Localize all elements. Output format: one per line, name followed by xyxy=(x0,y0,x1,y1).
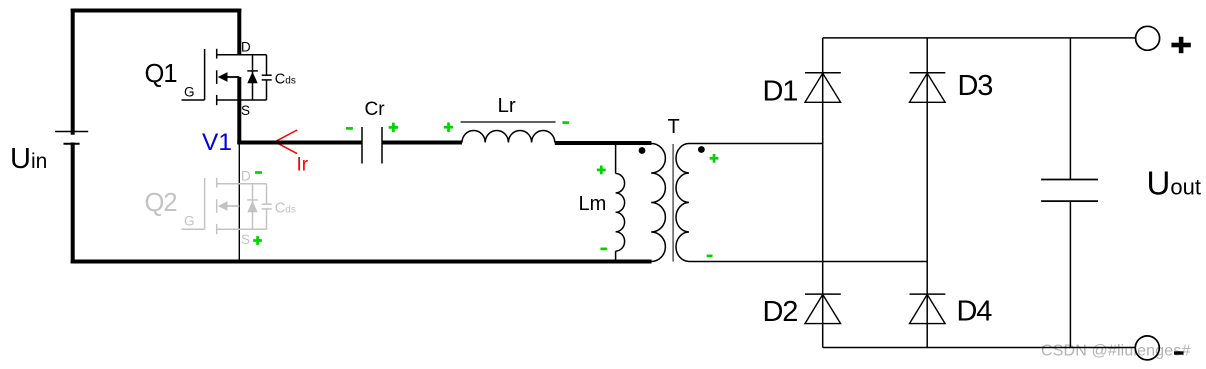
pin label D (Q2) xyxy=(241,169,251,184)
svg-text:D2: D2 xyxy=(763,296,798,328)
label + output xyxy=(1171,37,1190,53)
diode D2 xyxy=(805,294,841,324)
wire: secondary top to bridge left leg xyxy=(689,143,823,145)
Q2 body diode (gray) xyxy=(247,184,258,230)
label Uout xyxy=(1147,165,1201,202)
polarity - at secondary bottom xyxy=(707,255,713,258)
wire: bridge left leg xyxy=(822,38,824,348)
pin label G (Q2) xyxy=(184,214,195,229)
label Cds (Q1) xyxy=(275,72,296,88)
polarity - at Q2 drain xyxy=(255,171,262,174)
label D2 xyxy=(763,296,798,328)
svg-text:G: G xyxy=(184,214,195,229)
diode D1 xyxy=(805,73,841,103)
wire: Q1 source to node V1 (thick) xyxy=(237,77,241,144)
svg-text:D: D xyxy=(241,40,251,55)
wire: bottom rail xyxy=(71,260,652,264)
polarity + at Cr right xyxy=(389,123,399,133)
wire: bridge top rail to + terminal xyxy=(823,37,1136,39)
output terminal - (bottom right) xyxy=(1135,336,1159,360)
svg-text:T: T xyxy=(668,116,680,138)
pin label G (Q1) xyxy=(184,85,195,100)
wire: bridge right leg xyxy=(926,38,928,348)
wire: bridge bottom rail to - terminal xyxy=(823,347,1136,349)
polarity + at Lm top xyxy=(597,166,606,175)
polarity - at Lr right xyxy=(562,121,569,124)
wire: Cr to Lr xyxy=(382,141,462,145)
svg-text:V1: V1 xyxy=(202,129,232,156)
voltage source Uin battery plates xyxy=(55,132,88,144)
polarity + at Lr left xyxy=(444,122,453,132)
polarity + at Q2 source xyxy=(253,236,262,245)
svg-text:D4: D4 xyxy=(957,296,993,328)
svg-text:Q2: Q2 xyxy=(145,189,177,217)
svg-text:Ir: Ir xyxy=(297,155,309,176)
svg-text:Lm: Lm xyxy=(579,193,607,215)
current arrow Ir xyxy=(275,130,297,154)
label D1 xyxy=(763,76,798,108)
wire: V1 down through Q2 to bottom rail xyxy=(238,142,240,262)
svg-text:S: S xyxy=(241,232,250,247)
capacitor Cout branch wire upper xyxy=(1069,38,1071,180)
pin label S (Q2) xyxy=(241,232,250,247)
label D4 xyxy=(957,296,993,328)
label T xyxy=(668,116,680,138)
svg-text:D: D xyxy=(241,169,251,184)
label Cr xyxy=(365,99,386,120)
capacitor Cout branch wire lower xyxy=(1069,201,1071,347)
polarity - at Lm bottom xyxy=(600,248,607,251)
output terminal + (top right) xyxy=(1136,26,1160,50)
label Uin xyxy=(10,143,47,175)
wire: V1 node to Cr xyxy=(237,141,362,145)
svg-text:G: G xyxy=(184,85,195,100)
transformer phasing dot primary xyxy=(639,147,646,154)
label Cds (Q2) xyxy=(275,201,296,217)
transformer core xyxy=(672,144,674,262)
label Lr xyxy=(498,94,516,117)
label Q2 xyxy=(145,189,177,217)
svg-text:Lr: Lr xyxy=(498,94,516,117)
label - output xyxy=(1174,351,1184,354)
wire: Q1 drain (thick) xyxy=(237,9,241,56)
svg-text:CSDN @#liulenges#: CSDN @#liulenges# xyxy=(1041,343,1191,360)
capacitor Cout xyxy=(1041,180,1098,202)
diode D4 xyxy=(910,294,946,324)
wire: top rail from Uin to Q1 drain xyxy=(71,9,242,13)
transistor Q1 (MOSFET) xyxy=(182,49,267,105)
diode D3 xyxy=(910,73,946,103)
label Ir xyxy=(297,155,309,176)
wire: secondary bottom to bridge right leg xyxy=(689,261,927,263)
capacitor Cds of Q2 (gray) xyxy=(262,184,272,230)
Q1 body diode xyxy=(247,55,258,100)
capacitor Cr xyxy=(362,127,382,164)
transformer T secondary winding xyxy=(676,144,689,262)
transformer T primary winding xyxy=(651,144,665,262)
svg-text:D3: D3 xyxy=(958,70,993,102)
capacitor Cds of Q1 xyxy=(262,55,272,100)
label Q1 xyxy=(145,60,177,88)
label Lm xyxy=(579,193,607,215)
inductor Lr xyxy=(461,122,556,143)
transformer phasing dot secondary xyxy=(698,146,705,153)
svg-text:D1: D1 xyxy=(763,76,798,108)
svg-text:Cr: Cr xyxy=(365,99,386,120)
inductor Lm xyxy=(616,143,625,262)
svg-text:Q1: Q1 xyxy=(145,60,177,88)
polarity - at Cr left xyxy=(346,127,353,130)
polarity + at secondary top xyxy=(710,154,719,163)
pin label D (Q1) xyxy=(241,40,251,55)
svg-text:S: S xyxy=(241,103,250,118)
wire: left rail lower (Uin- to bottom) xyxy=(71,143,75,264)
label D3 xyxy=(958,70,993,102)
pin label S (Q1) xyxy=(241,103,250,118)
wire: left rail upper (Uin+ to top) xyxy=(71,9,75,135)
node V1 label xyxy=(202,129,232,156)
wire: Lr to transformer xyxy=(555,141,652,145)
transistor Q2 (MOSFET, inactive gray) xyxy=(182,178,267,234)
